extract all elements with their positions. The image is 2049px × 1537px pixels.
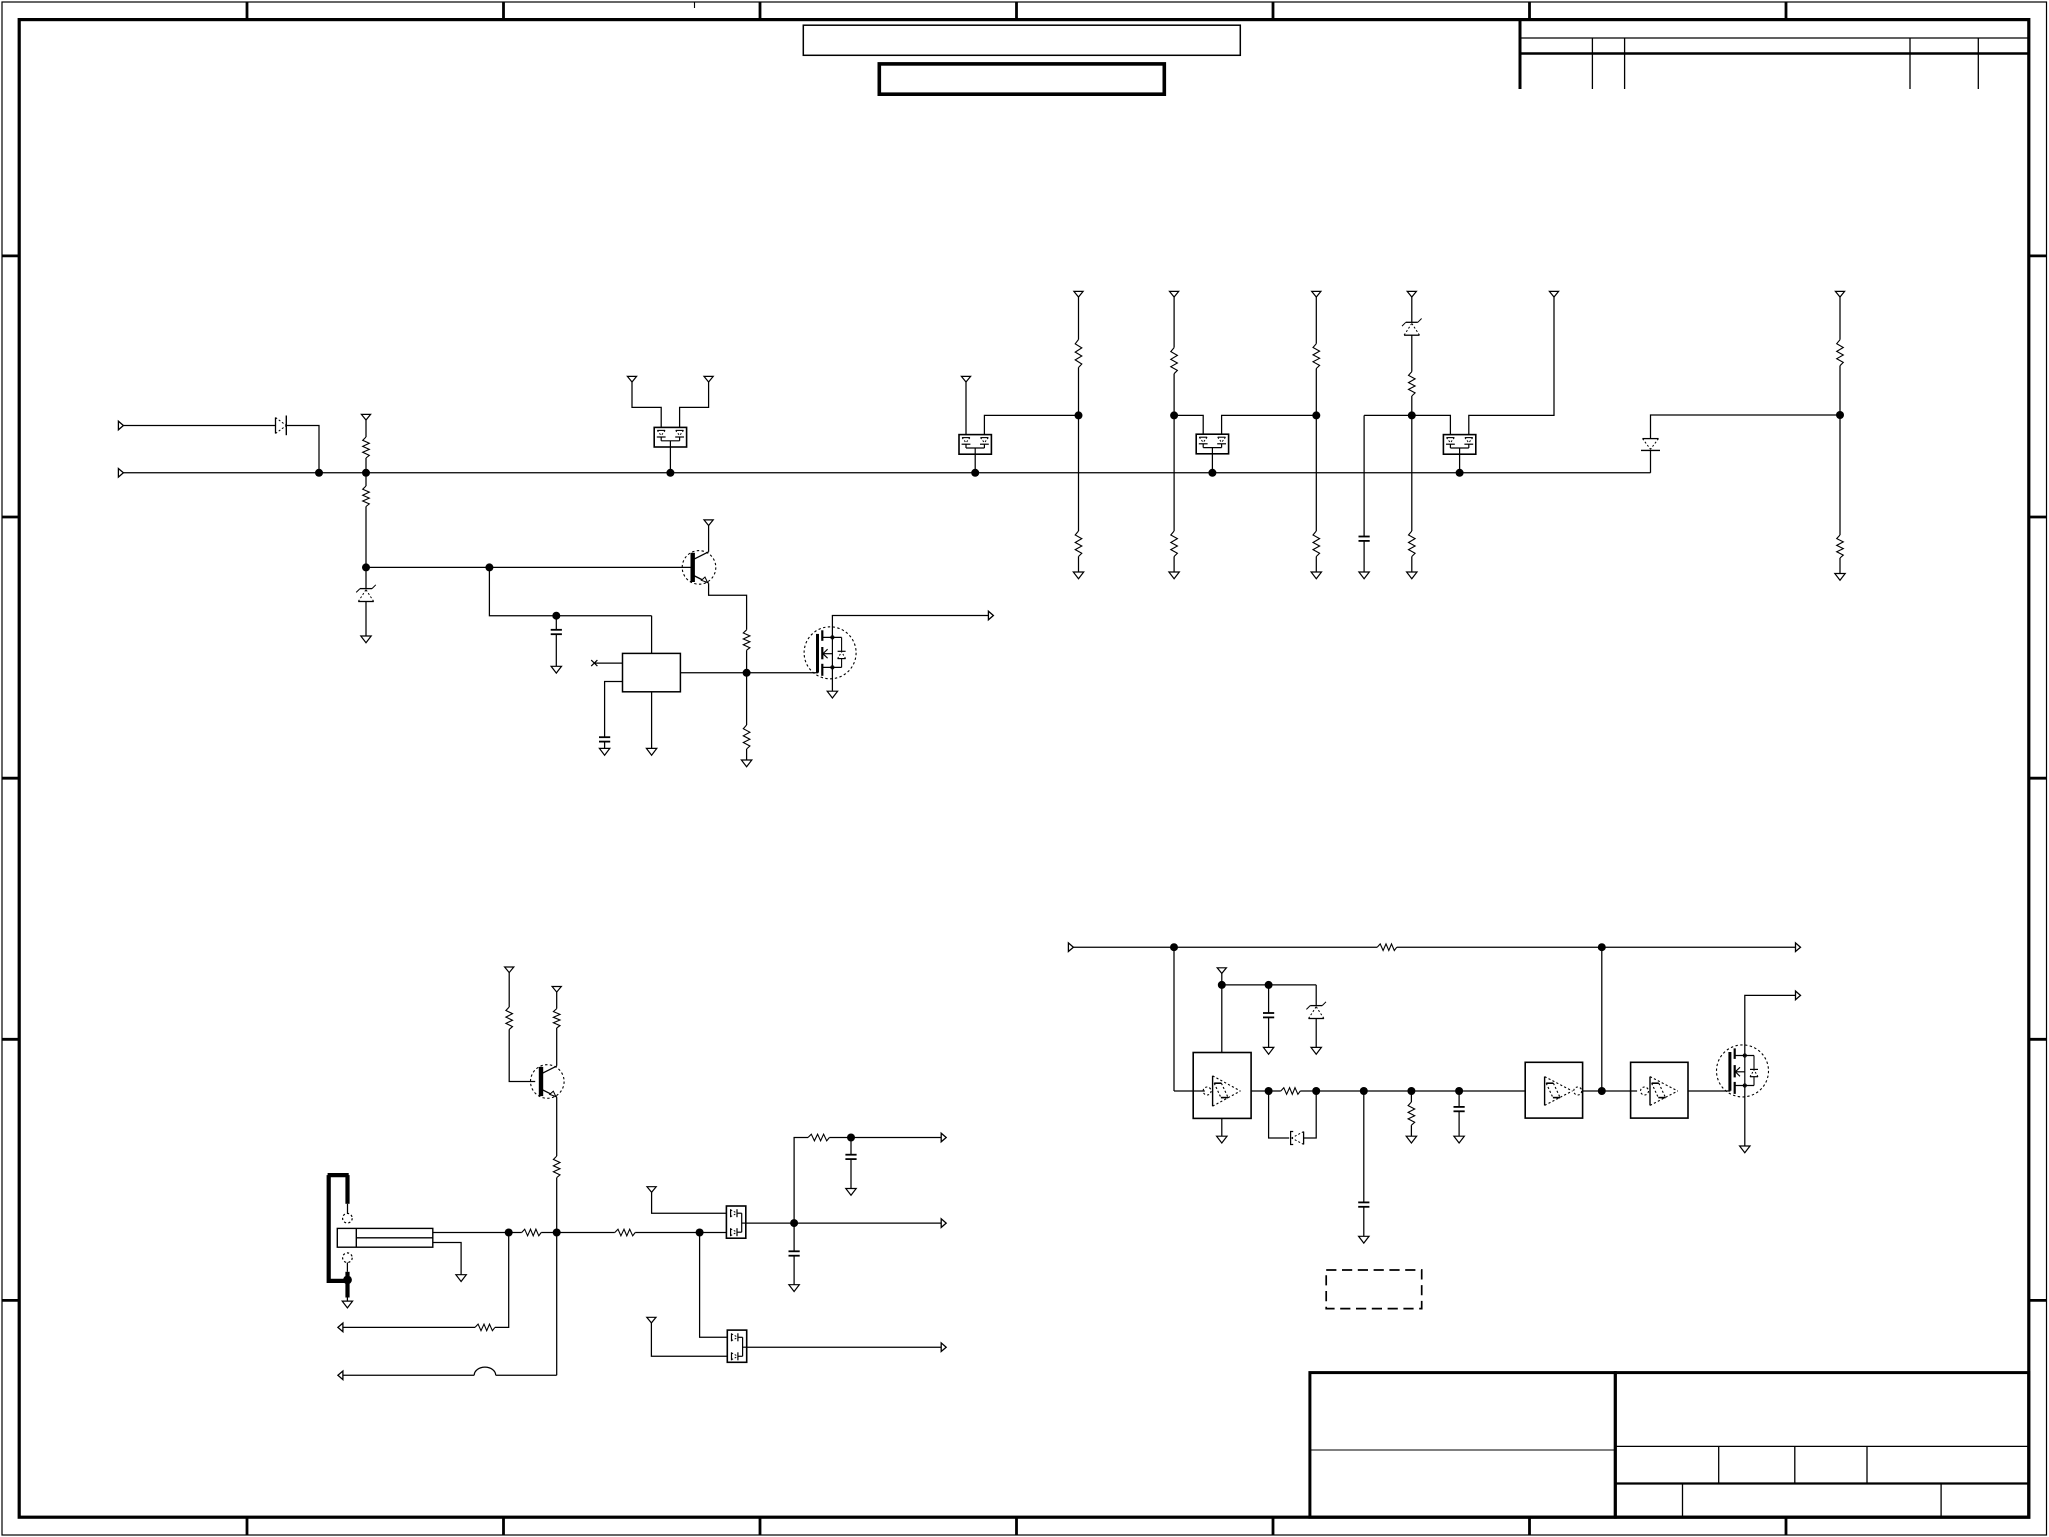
no-connect X bbox=[591, 660, 597, 666]
wire N15-C4 bbox=[850, 1138, 852, 1155]
buffer U3 bbox=[1525, 1062, 1582, 1118]
buffer U4 bbox=[1631, 1062, 1688, 1118]
ground G1 bbox=[361, 636, 371, 643]
wire N14 up bbox=[794, 1138, 808, 1224]
ground G7 bbox=[1073, 572, 1083, 579]
wire Q2 source bbox=[831, 667, 833, 691]
wire VP13-R16 bbox=[556, 992, 558, 1009]
wire hop bbox=[474, 1367, 496, 1375]
resistor R6 bbox=[1075, 531, 1082, 557]
ground G15 bbox=[846, 1189, 856, 1196]
resistor R20 bbox=[475, 1324, 495, 1331]
capacitor C4 bbox=[845, 1155, 856, 1159]
ground G6 bbox=[827, 691, 837, 698]
wire pin2 stub bbox=[346, 1263, 348, 1272]
wire VP15-D8 bbox=[651, 1323, 727, 1356]
wire U2 out bbox=[1251, 1090, 1269, 1092]
node N24 bbox=[1455, 1087, 1463, 1095]
wire R3-N4 bbox=[746, 650, 748, 673]
resistor R12 bbox=[1409, 531, 1416, 557]
wire schottky loop R bbox=[1304, 1091, 1317, 1138]
wire U1 pin1 stub bbox=[594, 662, 622, 664]
node N18 bbox=[1218, 981, 1226, 989]
wire Q3 emitter bbox=[556, 1097, 558, 1156]
wire C2-gnd bbox=[604, 742, 606, 749]
wire N22-C7 bbox=[1363, 1091, 1365, 1202]
wire D4 anode L bbox=[1174, 415, 1203, 434]
wire bus-D6 bbox=[1650, 450, 1652, 472]
wire R20 to P4 bbox=[343, 1326, 475, 1328]
wire D5 anode L bbox=[1412, 415, 1451, 434]
node N1 bbox=[362, 563, 370, 571]
connector J1 body bbox=[328, 1175, 350, 1297]
ground G16 bbox=[789, 1285, 799, 1292]
wire Q1 emitter to R3 bbox=[709, 583, 747, 630]
port P4 output bbox=[338, 1323, 343, 1332]
port P5 output bbox=[338, 1371, 343, 1380]
wire top rail b bbox=[1397, 946, 1602, 948]
ground G11 bbox=[1407, 572, 1417, 579]
node bus-j6 bbox=[1456, 469, 1464, 477]
power arrow VP4 bbox=[704, 376, 713, 382]
power arrow VP13 bbox=[552, 987, 561, 993]
wire R24-gnd bbox=[1410, 1125, 1412, 1136]
dual diode D8 bbox=[727, 1330, 746, 1362]
wire Q4 source bbox=[1744, 1086, 1746, 1147]
wire D6 to N10 bbox=[1651, 415, 1841, 439]
wire N6 down bbox=[1173, 415, 1175, 531]
resistor R10 bbox=[1313, 531, 1320, 557]
wire D5 anode R bbox=[1469, 297, 1554, 435]
wire R10-gnd bbox=[1315, 557, 1317, 573]
node N23 bbox=[1407, 1087, 1415, 1095]
wire N24-C8 bbox=[1458, 1091, 1460, 1107]
title box outer bbox=[803, 25, 1240, 55]
resistor R5 bbox=[1075, 340, 1082, 368]
wire N13-D7 bbox=[700, 1232, 727, 1234]
wire VP16-N18 bbox=[1221, 973, 1223, 985]
wire top rail c bbox=[1602, 946, 1796, 948]
wire N16-U2 bbox=[1174, 1090, 1205, 1092]
wire Z2-R11 bbox=[1411, 335, 1413, 372]
wire R13-N10 bbox=[1839, 366, 1841, 415]
node N20 bbox=[1265, 1087, 1273, 1095]
wire C6-gnd bbox=[1268, 1017, 1270, 1047]
wire P1 to D1 bbox=[123, 425, 275, 427]
wire VP9-Z2 bbox=[1411, 297, 1413, 322]
wire VP12-R15 bbox=[508, 973, 510, 1007]
power arrow VP15 bbox=[647, 1317, 656, 1323]
wire schottky loop L bbox=[1269, 1091, 1290, 1138]
wire U3-N17v bbox=[1583, 1090, 1602, 1092]
power arrow VP9 bbox=[1407, 291, 1416, 297]
wire VP7-R7 bbox=[1173, 297, 1175, 348]
wire N17 vert bbox=[1601, 947, 1603, 1091]
wire U1 out bbox=[680, 672, 746, 674]
wire N9 down bbox=[1411, 415, 1413, 531]
wire VP14-D7 bbox=[652, 1192, 727, 1213]
wire U2 bottom pin bbox=[1221, 1118, 1223, 1136]
wire VP6-R5 bbox=[1078, 297, 1080, 340]
port P7 output bbox=[941, 1219, 946, 1228]
transistor Q3 bbox=[531, 1065, 565, 1099]
wire Z3 drop bbox=[1315, 985, 1317, 1006]
power arrow VP8 bbox=[1312, 291, 1321, 297]
port P11 output bbox=[1796, 991, 1801, 1000]
capacitor C6 bbox=[1263, 1013, 1274, 1017]
wire N15-P6 bbox=[851, 1137, 941, 1139]
wire R11-N9 bbox=[1411, 396, 1413, 415]
resistor R15 bbox=[506, 1007, 513, 1029]
wire Q1 collector bbox=[708, 526, 710, 552]
ground G20 bbox=[1359, 1236, 1369, 1243]
wire D4 anode R bbox=[1222, 415, 1317, 434]
capacitor C7 bbox=[1358, 1202, 1369, 1206]
resistor R23 bbox=[1281, 1088, 1301, 1095]
wire N3-C1 bbox=[555, 616, 557, 630]
thermistor F1 bbox=[337, 1228, 433, 1247]
resistor R11 bbox=[1409, 372, 1416, 396]
resistor R7 bbox=[1171, 348, 1178, 374]
ground G22 bbox=[1454, 1136, 1464, 1143]
power arrow VP5 bbox=[961, 376, 970, 382]
wire N8 down bbox=[1363, 415, 1365, 536]
node bus-j5 bbox=[1208, 469, 1216, 477]
dnp dashed box bbox=[1326, 1270, 1422, 1309]
wire D3 stub bbox=[974, 454, 976, 473]
node N15 bbox=[847, 1134, 855, 1142]
resistor R18 bbox=[522, 1229, 542, 1236]
port P2 input bbox=[118, 469, 123, 478]
resistor R21 bbox=[808, 1134, 829, 1141]
node N11 bbox=[553, 1229, 561, 1237]
port P6 output bbox=[941, 1133, 946, 1142]
wire F1 top stub bbox=[433, 1232, 509, 1234]
buffer U2 bbox=[1193, 1053, 1251, 1119]
node N10 bbox=[1836, 411, 1844, 419]
wire D4 stub bbox=[1211, 454, 1213, 473]
mosfet Q4 bbox=[1717, 1045, 1769, 1097]
power arrow VP1 bbox=[361, 414, 370, 420]
power arrow VP11 bbox=[1835, 291, 1844, 297]
wire N12-R18 bbox=[509, 1232, 522, 1234]
schottky diode D9 bbox=[1291, 1132, 1304, 1145]
ground G23 bbox=[1740, 1146, 1750, 1153]
resistor R17 bbox=[553, 1156, 560, 1178]
revision table bbox=[1520, 21, 2029, 89]
capacitor C1 bbox=[551, 630, 562, 634]
wire R6-gnd bbox=[1078, 557, 1080, 573]
wire D2 stub bbox=[669, 447, 671, 473]
wire bus-R2 bbox=[365, 473, 367, 486]
ground G5 bbox=[741, 760, 751, 767]
power arrow VP16 bbox=[1217, 968, 1226, 974]
wire R5-N5 bbox=[1078, 368, 1080, 416]
wire U2 top pin bbox=[1221, 985, 1223, 1053]
resistor R3 bbox=[743, 630, 750, 650]
dual diode D5 bbox=[1443, 435, 1475, 455]
ground G18 bbox=[1311, 1047, 1321, 1054]
port P1 input bbox=[118, 421, 123, 430]
wire Z1-gnd bbox=[365, 601, 367, 636]
wire N12 down bbox=[495, 1233, 509, 1328]
wire VP11-R13 bbox=[1839, 297, 1841, 340]
wire Q4 drain out bbox=[1745, 995, 1796, 1055]
resistor R2 bbox=[363, 486, 370, 507]
resistor R8 bbox=[1171, 531, 1178, 557]
node bus-j4 bbox=[971, 469, 979, 477]
ground G3 bbox=[599, 748, 609, 755]
resistor R24 bbox=[1408, 1102, 1415, 1125]
title block bbox=[1310, 1373, 2029, 1518]
wire R1-bus bbox=[365, 458, 367, 473]
wire R14-gnd bbox=[1839, 558, 1841, 574]
wire R2-node bbox=[365, 507, 367, 568]
node N14 bbox=[790, 1219, 798, 1227]
wire C8-gnd bbox=[1458, 1111, 1460, 1136]
wire F1 bottom stub bbox=[433, 1243, 461, 1275]
wire R12-gnd bbox=[1411, 557, 1413, 573]
wire R17 down bbox=[556, 1178, 558, 1376]
power arrow VP10 bbox=[1549, 291, 1558, 297]
regulator U1 bbox=[623, 653, 681, 691]
power arrow VP12 bbox=[505, 967, 514, 973]
node connector gnd bbox=[343, 1276, 352, 1285]
wire R23-N21 bbox=[1300, 1090, 1316, 1092]
wire D2 anode L bbox=[632, 382, 661, 427]
wire D1 to bus bbox=[286, 426, 319, 473]
node N12 bbox=[505, 1229, 513, 1237]
node N3 bbox=[552, 612, 560, 620]
wire C1-gnd bbox=[555, 634, 557, 666]
resistor R22 bbox=[1377, 944, 1397, 951]
wire D7 out bbox=[746, 1222, 794, 1224]
node N9 bbox=[1408, 411, 1416, 419]
wire N4 gate bbox=[747, 672, 819, 674]
capacitor C5 bbox=[789, 1251, 800, 1255]
diode D6 bbox=[1641, 439, 1660, 451]
power arrow VP3 bbox=[627, 376, 636, 382]
title box inner bbox=[879, 64, 1164, 94]
node N13 bbox=[696, 1229, 704, 1237]
zener Z3 bbox=[1306, 1002, 1326, 1019]
wire R7-N6 bbox=[1173, 374, 1175, 416]
transistor Q1 bbox=[682, 551, 716, 585]
zener Z2 bbox=[1402, 319, 1422, 336]
wire N14-P7 bbox=[794, 1222, 941, 1224]
capacitor C8 bbox=[1454, 1107, 1465, 1111]
resistor R4 bbox=[743, 725, 750, 749]
wire N2 down-right bbox=[489, 567, 651, 615]
wire U1 top pin bbox=[651, 616, 653, 654]
power arrow VP2 bbox=[704, 520, 713, 526]
node N4 bbox=[743, 669, 751, 677]
wire VP8-R9 bbox=[1315, 297, 1317, 344]
wire N1-Z1 bbox=[365, 567, 367, 588]
wire pin1 stub bbox=[347, 1204, 349, 1214]
capacitor C3 bbox=[1359, 537, 1370, 541]
ground G9 bbox=[1311, 572, 1321, 579]
wire R18-N11 bbox=[541, 1232, 557, 1234]
port P9 input bbox=[1068, 943, 1073, 952]
wire VP1-R1 bbox=[365, 420, 367, 437]
ground G2 bbox=[551, 666, 561, 673]
ground G10 bbox=[1359, 572, 1369, 579]
node N25 bbox=[1598, 1087, 1606, 1095]
wire C5-gnd bbox=[793, 1256, 795, 1285]
wire N16 down bbox=[1173, 947, 1175, 1091]
resistor R13 bbox=[1837, 340, 1844, 366]
wire N7 down bbox=[1315, 415, 1317, 531]
wire C3-gnd bbox=[1363, 541, 1365, 572]
node N6 bbox=[1170, 411, 1178, 419]
ground G21 bbox=[1406, 1136, 1416, 1143]
wire hop to corner bbox=[496, 1374, 557, 1376]
mosfet Q2 bbox=[804, 627, 856, 679]
port P10 output bbox=[1796, 943, 1801, 952]
node N17 bbox=[1598, 943, 1606, 951]
ground G17 bbox=[1263, 1047, 1273, 1054]
ground G8 bbox=[1169, 572, 1179, 579]
power arrow VP14 bbox=[647, 1187, 656, 1193]
node N19 bbox=[1265, 981, 1273, 989]
port P8 output bbox=[941, 1343, 946, 1352]
wire N8 horiz bbox=[1364, 414, 1412, 416]
wire R15 to base bbox=[509, 1029, 535, 1081]
wire D2 anode R bbox=[680, 382, 709, 427]
wire N13 down bbox=[700, 1233, 728, 1338]
node N5 bbox=[1075, 411, 1083, 419]
wire C7-gnd bbox=[1363, 1207, 1365, 1237]
ground G13 bbox=[342, 1301, 352, 1308]
node N22 bbox=[1360, 1087, 1368, 1095]
wire top rail a bbox=[1073, 946, 1377, 948]
resistor R19 bbox=[615, 1229, 635, 1236]
node N16 bbox=[1170, 943, 1178, 951]
wire R21-N15 bbox=[829, 1137, 851, 1139]
wire U1 bottom pin bbox=[651, 692, 653, 749]
wire C4-gnd bbox=[850, 1159, 852, 1188]
wire D3 anode R bbox=[984, 415, 1078, 434]
wire R9-N7 bbox=[1315, 369, 1317, 416]
wire driver rail a bbox=[1316, 1090, 1525, 1092]
wire P5 seg bbox=[343, 1374, 474, 1376]
node N2 bbox=[485, 563, 493, 571]
ground G12 bbox=[1835, 574, 1845, 581]
resistor R16 bbox=[553, 1009, 560, 1028]
power arrow VP6 bbox=[1074, 291, 1083, 297]
power arrow VP7 bbox=[1170, 291, 1179, 297]
wire main bus bbox=[123, 472, 1650, 474]
diode D1 bbox=[276, 416, 287, 436]
stray tick top bbox=[694, 2, 696, 8]
wire N1 base rail bbox=[366, 566, 693, 568]
wire N11-R19 bbox=[557, 1232, 615, 1234]
wire N20-R23 bbox=[1269, 1090, 1281, 1092]
resistor R1 bbox=[363, 437, 370, 458]
wire R16-Q3c bbox=[556, 1028, 558, 1066]
wire R19-N13 bbox=[635, 1232, 699, 1234]
ground G4 bbox=[646, 748, 656, 755]
wire N4-R4 bbox=[746, 673, 748, 725]
connector J1 pin circle 2 bbox=[343, 1253, 353, 1263]
wire Z3-gnd bbox=[1315, 1018, 1317, 1047]
dual diode D3 bbox=[959, 435, 991, 455]
wire U4 out bbox=[1688, 1090, 1730, 1092]
node N7 bbox=[1312, 411, 1320, 419]
resistor R14 bbox=[1837, 535, 1844, 558]
node bus-j2 bbox=[362, 469, 370, 477]
node bus-j1 bbox=[315, 469, 323, 477]
dual diode D4 bbox=[1196, 434, 1228, 454]
wire N25-U4 bbox=[1602, 1090, 1637, 1092]
ground G14 bbox=[456, 1275, 466, 1282]
zener Z1 bbox=[356, 585, 376, 602]
wire R4-gnd bbox=[746, 749, 748, 760]
dual diode D2 bbox=[654, 427, 686, 447]
wire N14-C5 bbox=[793, 1223, 795, 1251]
wire R8-gnd bbox=[1173, 557, 1175, 573]
capacitor C2 bbox=[599, 737, 610, 741]
wire D5 stub bbox=[1459, 454, 1461, 473]
wire Q2 drain out bbox=[832, 616, 988, 638]
wire N19-C6 bbox=[1268, 985, 1270, 1013]
wire D3 anode L bbox=[965, 382, 967, 435]
wire U1 pin2 to C2 bbox=[605, 682, 623, 738]
dual diode D7 bbox=[726, 1206, 745, 1238]
wire N10 down bbox=[1839, 415, 1841, 535]
wire N18 rail bbox=[1222, 984, 1316, 986]
resistor R9 bbox=[1313, 344, 1320, 369]
wire N23-R24 bbox=[1410, 1091, 1412, 1102]
node N21 bbox=[1312, 1087, 1320, 1095]
node bus-j3 bbox=[666, 469, 674, 477]
port P3 output bbox=[988, 611, 993, 620]
ground G19 bbox=[1217, 1136, 1227, 1143]
wire conn gnd stub bbox=[346, 1298, 348, 1302]
wire D8 out bbox=[747, 1346, 942, 1348]
connector J1 pin circle 1 bbox=[343, 1213, 353, 1223]
wire N5 down bbox=[1078, 415, 1080, 531]
